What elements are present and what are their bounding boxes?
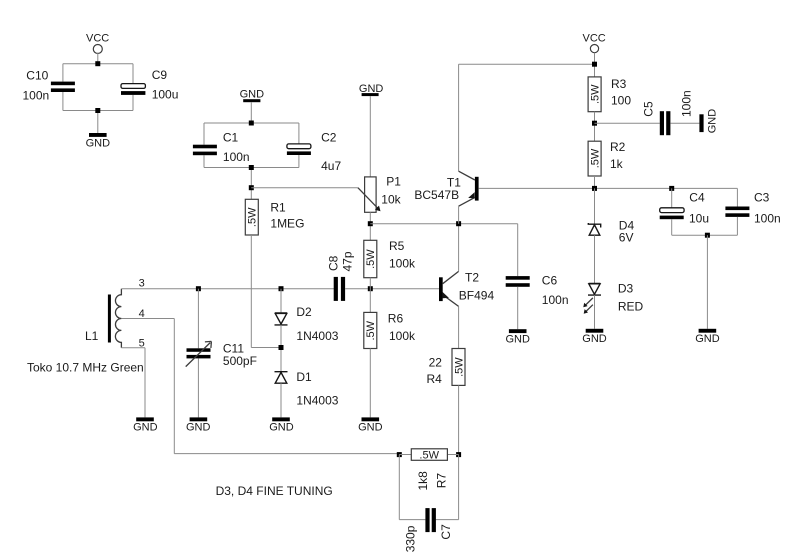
transistor T1 [414, 171, 478, 206]
wire node rail to C6 [370, 223, 517, 225]
junction D1/D2/R1 node [279, 345, 284, 350]
wire R7 left stub [399, 454, 411, 456]
wire C7 loop right down [458, 455, 460, 520]
wire C1 branch lower [203, 155, 205, 167]
resistor R3 [588, 77, 631, 112]
svg-text:.5W: .5W [590, 84, 602, 104]
svg-text:3: 3 [139, 278, 145, 290]
svg-text:100k: 100k [389, 257, 416, 271]
svg-text:C6: C6 [542, 273, 558, 287]
wire C4 drop [671, 188, 673, 207]
wire C10/C9 loop top [63, 63, 133, 65]
svg-text:BF494: BF494 [459, 288, 495, 302]
svg-text:.5W: .5W [453, 357, 465, 377]
wire D3 to ground [594, 295, 596, 329]
wire C2 branch upper [298, 123, 300, 144]
svg-text:D2: D2 [296, 305, 312, 319]
svg-text:4u7: 4u7 [321, 159, 341, 173]
svg-text:22: 22 [429, 355, 443, 369]
svg-text:VCC: VCC [86, 32, 109, 44]
wire C1 branch upper [203, 123, 205, 145]
resistor R1 [245, 199, 304, 235]
svg-text:100k: 100k [389, 329, 416, 343]
svg-text:L1: L1 [85, 329, 99, 343]
ground above P1 [359, 83, 384, 96]
wire C7 loop right bottom [436, 519, 459, 521]
svg-text:100n: 100n [223, 150, 250, 164]
svg-text:C4: C4 [689, 191, 705, 205]
ground above C1/C2 loop [240, 88, 265, 102]
resistor R6 [364, 311, 416, 348]
svg-text:C8: C8 [327, 255, 341, 271]
transistor T2 [439, 270, 494, 306]
svg-text:GND: GND [240, 88, 265, 100]
wire P1 bottom to node [369, 212, 371, 240]
svg-text:.5W: .5W [365, 249, 377, 269]
wire pin4 feedback down [173, 319, 175, 454]
wire C1/C2 loop top [204, 122, 299, 124]
wire D4 drop [594, 188, 596, 224]
wire T2 collector up [458, 224, 460, 272]
diode D2 [275, 305, 339, 343]
capacitor C11 (trimmer) [186, 341, 257, 368]
junction base rail / C4 [669, 186, 674, 191]
svg-text:1k: 1k [610, 157, 624, 171]
svg-text:C7: C7 [439, 524, 453, 540]
diode D4 (zener) [588, 219, 634, 245]
wire R6 to ground [369, 349, 371, 418]
wire R1 wiper tap to P1 [251, 187, 358, 189]
VCC supply symbol top-left [86, 32, 109, 53]
svg-text:C1: C1 [223, 130, 239, 144]
svg-text:1MEG: 1MEG [270, 216, 304, 230]
svg-text:100n: 100n [542, 293, 569, 307]
wire pin5 down to ground [144, 348, 146, 418]
ground below C11 [186, 417, 211, 433]
svg-text:GND: GND [582, 333, 607, 345]
capacitor C9 (electrolytic) [121, 68, 178, 102]
capacitor C10 [23, 68, 75, 102]
wire VCC to loop top [97, 53, 99, 64]
wire VCC rail to T1 collector [459, 63, 595, 65]
capacitor C5 [642, 90, 694, 135]
junction R7 left [397, 452, 402, 457]
diode D3 (LED) [583, 282, 643, 314]
svg-text:C5: C5 [642, 101, 656, 117]
svg-text:GND: GND [269, 422, 294, 434]
capacitor C7 [403, 508, 453, 552]
wire C11 top [197, 289, 199, 349]
junction C11 tap [196, 286, 201, 291]
svg-text:100n: 100n [754, 211, 781, 225]
wire D2 to D1 node [280, 325, 282, 372]
wire C10 branch lower [62, 92, 64, 111]
wire T2 emitter down to R4 [458, 306, 460, 348]
potentiometer P1 [358, 174, 402, 212]
ground rotated right of C5 [699, 109, 718, 134]
wire D2 top [280, 289, 282, 313]
svg-text:BC547B: BC547B [414, 188, 459, 202]
wire C9 branch lower [132, 95, 134, 111]
ground below D3 [582, 329, 607, 345]
svg-text:47p: 47p [340, 251, 354, 271]
capacitor C1 [193, 130, 250, 164]
svg-text:100n: 100n [23, 88, 50, 102]
capacitor C6 [506, 273, 569, 307]
capacitor C3 [725, 191, 780, 226]
junction C1 loop bottom [249, 165, 254, 170]
wire R5 to divider node [369, 278, 371, 313]
svg-text:T2: T2 [465, 270, 479, 284]
svg-text:C9: C9 [152, 68, 168, 82]
svg-text:R3: R3 [611, 77, 627, 91]
svg-text:D1: D1 [296, 370, 312, 384]
wire C2 branch lower [298, 155, 300, 168]
svg-text:500pF: 500pF [223, 354, 257, 368]
svg-text:1k8: 1k8 [416, 471, 430, 491]
svg-text:R4: R4 [427, 372, 443, 386]
wire loop bottom down to R1 [250, 168, 252, 200]
svg-text:GND: GND [695, 333, 720, 345]
wire loop bottom to ground [97, 111, 99, 134]
junction base rail / R2 [592, 186, 597, 191]
svg-text:Toko 10.7 MHz Green: Toko 10.7 MHz Green [27, 361, 144, 375]
ground below C4/C3 [695, 329, 720, 345]
wire GND to P1 top [369, 96, 371, 177]
diode D1 [275, 370, 339, 407]
junction R7 right [456, 452, 461, 457]
svg-text:R2: R2 [610, 140, 626, 154]
resistor R4 [427, 349, 466, 387]
wire pin5 right [121, 347, 145, 349]
wire R7 right stub [447, 454, 458, 456]
ground below D1 [269, 417, 294, 433]
wire R2 bottom to base rail [594, 176, 596, 188]
wire C10 branch upper [62, 64, 64, 82]
svg-text:D3, D4 FINE TUNING: D3, D4 FINE TUNING [216, 484, 333, 498]
wire C7 loop left down [398, 455, 400, 520]
svg-text:R1: R1 [270, 200, 286, 214]
wire C3 to loop bottom [736, 217, 738, 235]
wire pin4 feedback bottom to R7 [174, 453, 399, 455]
svg-text:GND: GND [358, 422, 383, 434]
wire D4 to D3 [594, 235, 596, 283]
svg-text:C3: C3 [754, 191, 770, 205]
svg-text:GND: GND [86, 137, 111, 149]
wire C11 bottom to ground [197, 358, 199, 417]
ground below C10/C9 loop [86, 133, 111, 149]
svg-text:C2: C2 [321, 130, 337, 144]
inductor L1 core bar [108, 295, 111, 343]
svg-text:GND: GND [506, 334, 531, 346]
svg-text:RED: RED [618, 299, 644, 313]
capacitor C8 [327, 251, 355, 301]
capacitor C4 (electrolytic) [660, 191, 709, 226]
svg-text:D3: D3 [618, 282, 634, 296]
wire C3 drop [736, 188, 738, 206]
svg-text:R7: R7 [435, 473, 449, 489]
wire pin4 feedback right [121, 318, 174, 320]
wire pin3 rail to C8 [121, 288, 334, 290]
junction D2 tap [279, 286, 284, 291]
svg-text:P1: P1 [386, 174, 401, 188]
junction VCC top-left [95, 61, 100, 66]
svg-text:1N4003: 1N4003 [296, 393, 338, 407]
wire R1 bottom down [250, 235, 252, 348]
svg-text:.5W: .5W [365, 320, 377, 340]
svg-text:.5W: .5W [247, 207, 259, 227]
junction P1 bottom node [368, 221, 373, 226]
wire R4 to R7 node [458, 385, 460, 454]
junction R1 top node to P1 wiper [249, 185, 254, 190]
svg-text:100u: 100u [152, 88, 179, 102]
wire C6 drop [517, 224, 519, 276]
junction C10/C9 loop bottom [95, 108, 100, 113]
svg-text:VCC: VCC [583, 32, 606, 44]
wire C10/C9 loop bottom [63, 110, 133, 112]
wire C4/C3 loop bottom [672, 234, 738, 236]
ground below C6 [506, 329, 531, 345]
wire C7 loop left bottom [399, 519, 425, 521]
wire R3 to R2 [594, 112, 596, 142]
wire T1 base rail [479, 187, 738, 189]
junction C4/C3 ground node [705, 233, 710, 238]
junction R5/R6 divider node [368, 286, 373, 291]
wire R1 to diode node [251, 347, 281, 349]
svg-text:GND: GND [186, 422, 211, 434]
svg-text:.5W: .5W [419, 449, 439, 461]
capacitor C2 (electrolytic) [287, 130, 342, 173]
wire C4 to loop bottom [671, 219, 673, 235]
junction C1 loop top [249, 121, 254, 126]
wire GND to C1 loop top [250, 102, 252, 123]
wire C6 to ground [517, 287, 519, 329]
inductor L1 coil [115, 289, 121, 348]
svg-text:.5W: .5W [590, 148, 602, 168]
svg-text:100n: 100n [679, 90, 693, 117]
svg-text:GND: GND [706, 109, 718, 134]
wire C5 to rotated ground [670, 122, 699, 124]
junction VCC top-right [592, 62, 597, 67]
svg-text:10k: 10k [381, 192, 401, 206]
svg-text:10u: 10u [689, 211, 709, 225]
resistor R5 [364, 239, 416, 278]
wire T1 collector drop [458, 64, 460, 171]
wire T1 emitter down to node [458, 206, 460, 224]
svg-text:100: 100 [611, 93, 631, 107]
wire VCC to R3 [594, 53, 596, 77]
VCC supply symbol top-right [583, 32, 606, 52]
wire D1 to ground [280, 383, 282, 417]
svg-text:R6: R6 [388, 311, 404, 325]
svg-text:R5: R5 [389, 239, 405, 253]
junction C5 tap [592, 121, 597, 126]
svg-text:GND: GND [133, 422, 158, 434]
wire loop node to ground [706, 235, 708, 329]
svg-text:6V: 6V [619, 230, 634, 244]
resistor R2 [588, 140, 626, 176]
wire C5 branch [595, 122, 660, 124]
wire C9 branch upper [132, 64, 134, 84]
svg-text:C10: C10 [26, 68, 48, 82]
junction T1 emitter / T2 collector node [456, 221, 461, 226]
ground below L1 pin5 [133, 417, 158, 433]
wire C8 to T2 base [345, 288, 439, 290]
svg-text:1N4003: 1N4003 [296, 329, 338, 343]
ground below R6 [358, 417, 383, 433]
svg-text:330p: 330p [403, 525, 417, 552]
wire C1/C2 loop bottom [204, 167, 299, 169]
resistor R7 [411, 449, 448, 491]
